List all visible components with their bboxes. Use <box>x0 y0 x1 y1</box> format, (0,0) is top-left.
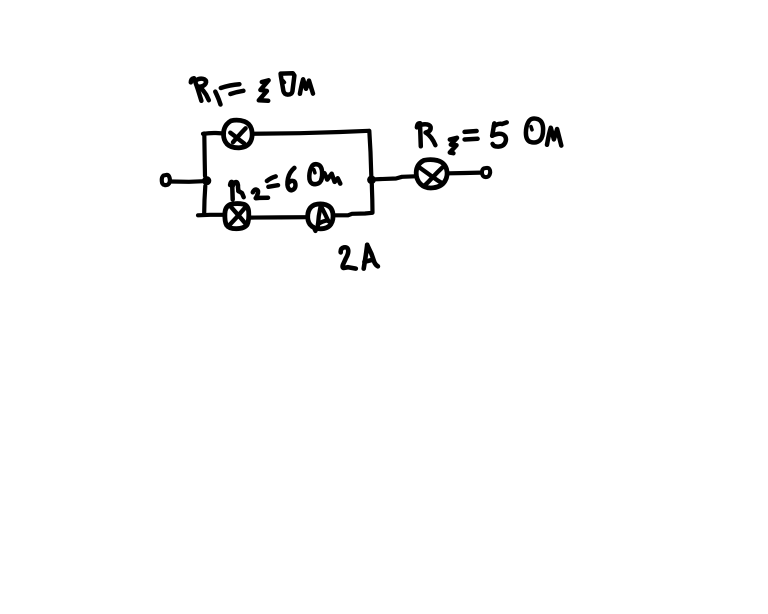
wire left vertical <box>204 134 205 214</box>
wire junction to R3 <box>375 176 415 179</box>
label R2 = 6 Ohm <box>230 164 340 199</box>
node right junction <box>367 175 376 184</box>
wire bottom-right <box>334 213 372 216</box>
node left junction <box>202 176 211 185</box>
wire left lead <box>171 179 204 184</box>
lamp R2 <box>225 204 249 229</box>
terminal left <box>162 175 170 185</box>
wire bottom-left stub <box>198 213 224 218</box>
wire right vertical <box>369 131 372 213</box>
lamp R1 <box>223 120 252 148</box>
terminal right <box>482 168 490 177</box>
wire top horizontal <box>253 131 370 134</box>
label 2 A <box>341 245 378 269</box>
label R3 = 5 Ohm <box>417 119 561 154</box>
label R1 = 3 Ohm <box>191 73 313 104</box>
wire bottom middle <box>250 215 308 220</box>
ammeter A <box>308 204 333 231</box>
wire top-left horizontal <box>203 131 224 136</box>
wire R3 to right terminal <box>449 171 481 176</box>
lamp R3 <box>416 160 447 188</box>
